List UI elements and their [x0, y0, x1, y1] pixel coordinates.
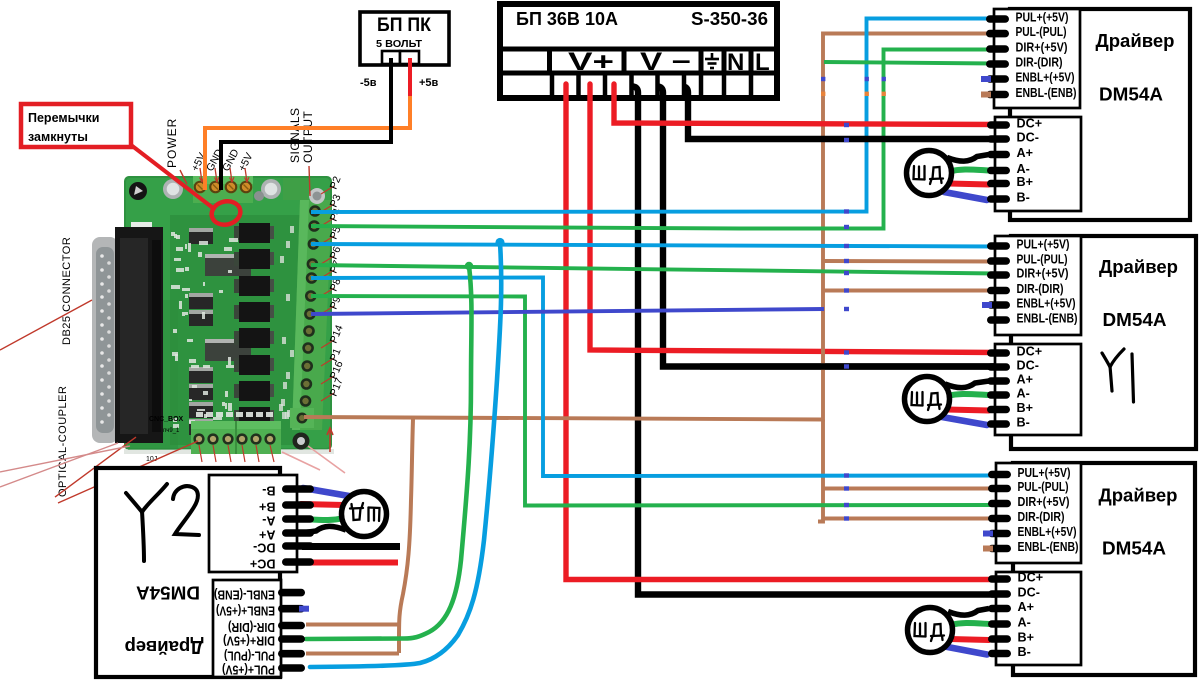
driver box 1 [986, 9, 1190, 220]
svg-text:ENBL-(ENB): ENBL-(ENB) [1016, 86, 1077, 100]
svg-text:DM54A: DM54A [1099, 84, 1163, 105]
svg-text:DM54A: DM54A [136, 583, 200, 604]
svg-text:ENBL+(+5V): ENBL+(+5V) [1016, 70, 1075, 84]
svg-text:PUL-(PUL): PUL-(PUL) [224, 648, 275, 662]
motor circle ШД 3 [908, 608, 953, 653]
svg-text:DC-: DC- [1018, 586, 1040, 600]
wire cyan P5 to driver2 PUL+ [311, 244, 996, 247]
handwritten Y2 on rotated driver [126, 484, 199, 561]
svg-text:B+: B+ [1017, 401, 1033, 415]
svg-text:B+: B+ [1017, 175, 1033, 189]
svg-text:A+: A+ [1017, 373, 1033, 387]
pin labels P2..P17 [321, 186, 334, 194]
svg-text:A-: A- [262, 514, 275, 528]
svg-text:B-: B- [1017, 191, 1030, 205]
wire brown branch driver2 DIR- [823, 289, 996, 293]
svg-text:DIR+(+5V): DIR+(+5V) [223, 634, 275, 648]
svg-text:ENBL+(+5V): ENBL+(+5V) [216, 603, 275, 617]
svg-text:Драйвер: Драйвер [1096, 30, 1175, 51]
svg-text:ENBL-(ENB): ENBL-(ENB) [214, 587, 275, 601]
wire cyan P3 to driver1 PUL+ [311, 19, 995, 213]
svg-text:DC+: DC+ [1017, 117, 1043, 131]
svg-text:DIR+(+5V): DIR+(+5V) [1017, 266, 1069, 280]
wire violet P9 enable wire [311, 309, 824, 314]
svg-text:V+: V+ [568, 48, 614, 76]
red circle jumpers [209, 198, 243, 227]
svg-text:B-: B- [1018, 645, 1031, 659]
wire Y2 DC- black [302, 543, 400, 550]
motor wires ШД Y2 [301, 488, 387, 537]
svg-text:ENBL-(ENB): ENBL-(ENB) [1017, 311, 1078, 325]
PC power supply БП ПК [360, 12, 449, 89]
svg-text:DIR-(DIR): DIR-(DIR) [228, 620, 275, 634]
wire brown branch driver3 PUL- [823, 487, 997, 491]
handwritten Y1 on driver 2 [1102, 349, 1134, 402]
driver box 3 [988, 463, 1195, 675]
svg-text:PUL-(PUL): PUL-(PUL) [1018, 480, 1069, 494]
svg-text:DC-: DC- [1017, 131, 1039, 145]
wire red V+ to driver1 DC+ [614, 84, 997, 125]
svg-text:замкнуты: замкнуты [28, 130, 88, 144]
svg-text:Драйвер: Драйвер [1099, 256, 1178, 277]
svg-text:Драйвер: Драйвер [1099, 485, 1178, 506]
svg-text:CNC_BOX: CNC_BOX [149, 416, 184, 423]
motor wires ШД 1 [947, 155, 989, 162]
motor circle ШД 2 [905, 377, 950, 422]
wire black -5v: PC supply to board GND [221, 58, 391, 190]
svg-text:DIR+(+5V): DIR+(+5V) [1016, 40, 1068, 54]
svg-text:DIR+(+5V): DIR+(+5V) [1018, 495, 1070, 509]
wire brown Y2 DIR- [306, 623, 400, 627]
svg-text:A+: A+ [1018, 600, 1034, 614]
svg-text:БП 36В 10А: БП 36В 10А [516, 9, 618, 29]
earth symbol [705, 53, 719, 68]
svg-text:DM54A: DM54A [1102, 538, 1166, 559]
motor circle ШД Y2 [342, 492, 387, 537]
wire cyan curvy to Y2 PUL+ [310, 243, 501, 667]
wire brown branch driver2 PUL- [823, 259, 996, 263]
svg-text:B+: B+ [1018, 631, 1034, 645]
svg-text:PUL+(+5V): PUL+(+5V) [1017, 237, 1070, 251]
svg-text:A-: A- [1017, 162, 1030, 176]
enable pin stubs [981, 76, 991, 82]
wire cyan P7 to driver3 PUL+ [311, 278, 997, 477]
wire red V+ to driver3 DC+ [566, 84, 997, 580]
wire brown curvy to Y2 drv [399, 419, 413, 653]
svg-text:PUL-(PUL): PUL-(PUL) [1017, 252, 1068, 266]
svg-text:PUL+(+5V): PUL+(+5V) [222, 663, 275, 677]
svg-text:L: L [755, 49, 770, 76]
svg-text:DIR-(DIR): DIR-(DIR) [1016, 55, 1063, 69]
svg-text:+5в: +5в [419, 77, 439, 89]
svg-text:A-: A- [1018, 616, 1031, 630]
svg-text:DM54A: DM54A [1103, 309, 1167, 330]
wire brown Y2 PUL- [306, 652, 399, 656]
breakout board photo [92, 176, 334, 463]
svg-text:PUL+(+5V): PUL+(+5V) [1018, 466, 1071, 480]
svg-text:A-: A- [1017, 387, 1030, 401]
svg-text:Драйвер: Драйвер [125, 637, 204, 658]
svg-text:B-: B- [1017, 416, 1030, 430]
motor circle ШД 1 [907, 151, 952, 196]
wire green P4 to driver1 DIR+ [311, 50, 995, 229]
svg-text:N: N [727, 49, 744, 76]
svg-text:A+: A+ [1017, 146, 1033, 160]
svg-text:SIGNALS: SIGNALS [288, 107, 302, 163]
svg-text:DC-: DC- [253, 541, 275, 555]
wire Y2 DC+ red [302, 560, 398, 566]
svg-text:-5в: -5в [360, 77, 377, 89]
wire brown branch driver3 DIR- [823, 517, 997, 521]
driver box 2 [987, 236, 1196, 449]
wire brown bus board GND up to driver1 PUL- [304, 34, 995, 420]
svg-text:DC+: DC+ [1017, 345, 1043, 359]
svg-text:5 ВОЛЬТ: 5 ВОЛЬТ [376, 38, 423, 50]
wire green curvy to Y2 DIR+ [306, 266, 472, 639]
wire green P6 to driver2 DIR+ [311, 265, 996, 274]
wire black V- to driver1 DC- [682, 87, 997, 140]
power supply БП 36В 10А S-350-36 [497, 4, 780, 98]
svg-text:DIR-(DIR): DIR-(DIR) [1018, 510, 1065, 524]
svg-text:OPTICAL-COUPLER: OPTICAL-COUPLER [57, 386, 69, 497]
motor wires ШД 2 [945, 381, 989, 388]
svg-text:OUTPUT: OUTPUT [301, 111, 315, 164]
svg-text:DC+: DC+ [250, 557, 276, 571]
wire black V- to driver3 DC- [632, 87, 997, 595]
wire brown bus down [818, 420, 823, 522]
svg-text:DB25 CONNECTOR: DB25 CONNECTOR [61, 237, 73, 345]
svg-text:B+: B+ [259, 500, 275, 514]
svg-text:DC-: DC- [1017, 359, 1039, 373]
svg-text:PUL+(+5V): PUL+(+5V) [1016, 10, 1069, 24]
svg-text:DIR-(DIR): DIR-(DIR) [1017, 282, 1064, 296]
svg-text:B-: B- [262, 484, 275, 498]
wire green driver1 DIR- [824, 62, 995, 64]
wire black V- to driver2 DC- [657, 87, 997, 367]
wire orange +5v: board to PC supply [205, 94, 410, 190]
wire black V- driver2 DC- overpass [700, 363, 997, 369]
wire red +5v top [408, 58, 412, 96]
callout Перемычки замкнуты [131, 145, 213, 208]
svg-text:БП ПК: БП ПК [377, 15, 431, 36]
svg-text:Перемычки: Перемычки [28, 111, 99, 125]
svg-text:POWER: POWER [165, 118, 179, 168]
svg-text:пч9_1: пч9_1 [163, 428, 180, 434]
svg-text:ENBL-(ENB): ENBL-(ENB) [1018, 540, 1079, 554]
svg-text:DC+: DC+ [1018, 571, 1044, 585]
wire green P8 to driver3 DIR+ [311, 296, 997, 506]
erased enable wire remnants [844, 123, 849, 127]
svg-text:PUL-(PUL): PUL-(PUL) [1016, 25, 1067, 39]
svg-text:S-350-36: S-350-36 [691, 9, 768, 29]
driver box Y2 (rotated) [96, 468, 314, 677]
wire red V+ to driver2 DC+ [590, 84, 997, 353]
motor wires ШД 3 [948, 609, 989, 616]
svg-text:ENBL+(+5V): ENBL+(+5V) [1017, 296, 1076, 310]
svg-text:ENBL+(+5V): ENBL+(+5V) [1018, 525, 1077, 539]
svg-text:A+: A+ [259, 528, 275, 542]
svg-text:V −: V − [640, 48, 691, 76]
